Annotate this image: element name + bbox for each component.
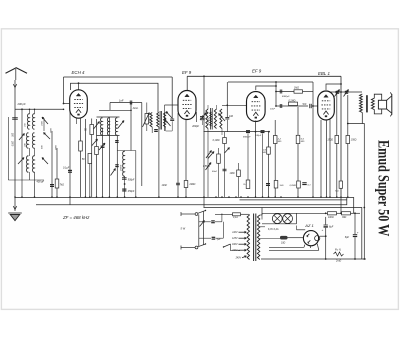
wire EF9-1 center xyxy=(185,120,187,198)
wire x102.5 with cap xyxy=(102,128,104,197)
filament lines from transformer xyxy=(269,246,304,248)
svg-text:EF 9: EF 9 xyxy=(252,69,262,74)
wire speaker top xyxy=(374,94,381,100)
heater return line xyxy=(204,208,362,260)
padder resistor xyxy=(145,114,149,125)
capacitor TA a xyxy=(199,221,211,223)
wire anode rail drop x204 xyxy=(203,76,205,207)
svg-text:MΩ: MΩ xyxy=(278,141,282,143)
svg-text:200 pF: 200 pF xyxy=(17,102,26,106)
resistor 200 xyxy=(184,181,188,188)
feedback cap arrow a xyxy=(336,91,339,92)
svg-text:8µF: 8µF xyxy=(345,236,350,239)
svg-text:Emud Super 50 W: Emud Super 50 W xyxy=(374,140,391,236)
svg-text:MΩ: MΩ xyxy=(263,152,267,154)
capacitor dark on x268 xyxy=(266,183,270,184)
svg-text:0,1A: 0,1A xyxy=(233,216,238,219)
fuse 0.1A xyxy=(233,213,241,216)
anode rail left xyxy=(64,76,173,78)
dial lamp top wire xyxy=(262,212,297,214)
resistor on x96.5 xyxy=(95,147,99,155)
resistor 5k on x248 xyxy=(247,134,249,181)
svg-text:8µF: 8µF xyxy=(329,226,334,229)
svg-text:6,3V 0,2A: 6,3V 0,2A xyxy=(268,228,279,231)
screen box EF9-2 xyxy=(228,81,313,83)
chassis bus xyxy=(15,198,354,214)
svg-text:0,1µF: 0,1µF xyxy=(63,166,70,169)
wire IF1 winding b bottom xyxy=(158,127,160,197)
wire x276 screen drop xyxy=(275,82,277,92)
svg-text:6300pF: 6300pF xyxy=(282,96,290,98)
svg-text:EF 9: EF 9 xyxy=(182,70,192,75)
wire x276 down xyxy=(275,92,277,107)
svg-text:MΩ: MΩ xyxy=(335,191,339,193)
svg-text:5nF: 5nF xyxy=(303,104,308,106)
svg-text:200Ω: 200Ω xyxy=(189,183,196,186)
capacitor 6800pF xyxy=(246,130,250,131)
tube EF9 second xyxy=(247,92,266,122)
svg-text:110V: 110V xyxy=(232,232,238,234)
capacitor 400pF xyxy=(50,184,54,185)
wire vertical x164.5 xyxy=(164,112,166,131)
band switch arrow a xyxy=(206,151,212,159)
wire TA vertical b xyxy=(202,212,204,245)
switch arrow input xyxy=(19,134,25,141)
svg-text:1µF: 1µF xyxy=(217,239,221,241)
dial lamp 2 xyxy=(283,214,293,224)
power transformer secondary xyxy=(257,215,259,260)
capacitor 6300pF xyxy=(279,90,281,94)
output transformer secondary xyxy=(371,98,374,110)
IF transformer 1 core xyxy=(159,111,161,130)
svg-text:450pF: 450pF xyxy=(128,190,135,193)
wire input bottom joins xyxy=(8,179,44,181)
svg-text:0,2MΩ: 0,2MΩ xyxy=(289,101,296,103)
wire EF9-2 cathode down xyxy=(255,121,257,198)
capacitor 200pF EF9-1 xyxy=(201,117,205,119)
svg-text:200pF: 200pF xyxy=(191,125,199,128)
input coil L5 xyxy=(27,156,29,172)
svg-text:1500: 1500 xyxy=(42,120,44,126)
osc switch arrow a xyxy=(92,139,98,146)
trimmer arrow input 3 xyxy=(18,158,24,165)
resistor on B+ line xyxy=(339,181,342,188)
osc switch arrow b xyxy=(99,143,105,150)
screen line ECH4 to IF1 xyxy=(71,83,159,112)
wire osc verticals xyxy=(108,117,110,197)
resistor 1M AVC xyxy=(294,90,303,93)
svg-text:0,1MΩ: 0,1MΩ xyxy=(213,140,220,142)
coil 20000 xyxy=(210,112,212,126)
resistor heater b xyxy=(342,212,351,215)
svg-text:220V: 220V xyxy=(231,250,238,252)
bus junction dots xyxy=(14,196,16,198)
IF transformer 1 winding c xyxy=(164,113,166,128)
capacitor 0.1uF xyxy=(68,170,72,171)
capacitor 50pF xyxy=(170,118,174,120)
second bus xyxy=(36,198,347,205)
tube EF9 first xyxy=(178,91,196,120)
wire vertical x44 upper xyxy=(43,118,45,131)
wire x313 down xyxy=(312,106,314,197)
grid top cap wire ECH4 xyxy=(78,83,80,90)
voltage selector taps xyxy=(239,231,247,233)
switch arrow mid xyxy=(225,148,230,154)
speaker cone xyxy=(387,96,392,101)
ground symbol xyxy=(10,215,20,221)
trimmer arrow input 2 xyxy=(44,133,51,140)
oscillator coil row2 xyxy=(123,151,125,176)
wire osc grid line xyxy=(99,109,131,111)
switch TA lower xyxy=(198,244,206,247)
wire input vertical a xyxy=(29,148,31,156)
svg-text:Abst.: Abst. xyxy=(132,107,139,110)
oscillator coil bank 3 xyxy=(115,118,117,135)
svg-text:160V: 160V xyxy=(232,244,238,246)
wire osc row1 top xyxy=(97,116,120,118)
IF2 trimmer arrow b xyxy=(219,114,226,122)
svg-text:25000: 25000 xyxy=(120,164,122,172)
rail B drop to EF9-1 top xyxy=(186,76,188,90)
svg-text:240V: 240V xyxy=(235,257,242,260)
capacitor IF1 bottom xyxy=(154,129,158,130)
wire vertical x70 xyxy=(69,109,71,205)
wire EBL1 grid cap xyxy=(326,84,341,90)
grid cap wire EF9-2 xyxy=(256,86,276,90)
trimmer arrow input 4 xyxy=(42,158,48,165)
svg-text:10nF: 10nF xyxy=(270,109,276,111)
resistor 0.1M mid xyxy=(223,138,227,144)
bottom heater line xyxy=(261,258,366,260)
IF transformer 1 winding a xyxy=(150,113,152,128)
wire dots on antenna line xyxy=(29,109,31,111)
ground arrow xyxy=(13,206,17,210)
osc switch arrow row2 xyxy=(111,169,116,176)
wire B+ to heater node xyxy=(340,197,342,213)
trimmer arrow input 1 xyxy=(42,117,48,124)
wire x364 to bottom xyxy=(363,258,365,260)
feedback cap arrow b xyxy=(345,91,348,92)
capacitor 700pF xyxy=(261,130,265,131)
wire AZ1 output xyxy=(310,245,312,248)
electrolytic 8uF b xyxy=(354,213,356,234)
wire x321 down xyxy=(320,120,322,197)
resistor 50k bottom xyxy=(88,154,92,164)
svg-text:1MΩ: 1MΩ xyxy=(230,173,235,175)
switch TA upper xyxy=(198,211,206,214)
osc trimmer arrow a xyxy=(94,122,100,130)
IF transformer 2 winding b xyxy=(214,109,216,129)
svg-text:+: + xyxy=(357,231,359,235)
resistor 0.5M det xyxy=(297,107,299,135)
wire EF9-1 cathode xyxy=(177,113,179,197)
svg-text:100Ω: 100Ω xyxy=(328,217,334,219)
wire ECH4 x85.4 xyxy=(84,119,86,197)
osc trimmer arrow b xyxy=(118,121,124,129)
rectifier tube AZ1 xyxy=(303,231,318,246)
junction antenna node xyxy=(21,108,23,110)
anode rail right xyxy=(187,75,341,77)
wire screen corner x313 xyxy=(312,82,314,106)
wire x262.5 down xyxy=(262,134,264,198)
wire ECH4 cathode mid with box xyxy=(80,119,82,198)
wire AZ1 output right xyxy=(320,235,326,237)
svg-text:150Ω: 150Ω xyxy=(327,140,333,142)
svg-text:AZ 1: AZ 1 xyxy=(304,223,313,228)
wire speaker bottom xyxy=(374,109,381,114)
wire TA caps right xyxy=(215,221,222,223)
anode line EBL1 xyxy=(330,91,362,93)
svg-text:0,5MΩ: 0,5MΩ xyxy=(203,166,210,168)
svg-text:2000: 2000 xyxy=(11,140,13,147)
IF transformer 1 winding b xyxy=(157,113,159,128)
wire osc row2 right down xyxy=(135,151,137,198)
capacitor elco 0.1 xyxy=(302,182,306,184)
wire input left vertical xyxy=(7,117,9,180)
wire osc row2 left xyxy=(116,136,118,198)
svg-text:1kΩ: 1kΩ xyxy=(280,185,284,187)
svg-text:ECH 4: ECH 4 xyxy=(72,70,85,75)
terminal TA lower xyxy=(195,246,198,249)
tube ECH4 xyxy=(70,90,88,118)
tube EBL1 xyxy=(318,91,335,120)
svg-text:150Ω: 150Ω xyxy=(351,140,357,142)
wire osc row2 top xyxy=(117,150,136,152)
svg-text:500pF: 500pF xyxy=(128,179,135,181)
antenna coupling capacitor xyxy=(12,117,18,119)
wire osc row1 bottom xyxy=(97,135,120,137)
mains switch xyxy=(224,244,231,247)
capacitor 500pF xyxy=(122,177,127,179)
resistor 100 ohm heater a xyxy=(328,212,337,215)
resistor 1M mid xyxy=(237,170,241,177)
transformer primary top wire xyxy=(249,213,251,216)
HT secondary taps xyxy=(260,226,265,228)
antenna xyxy=(6,68,28,73)
capacitor IF2 left xyxy=(200,116,204,118)
wire output return down xyxy=(363,130,365,260)
wire EF9-2 bottom line xyxy=(204,131,270,133)
wire x348 resistor xyxy=(347,95,349,136)
svg-text:100pF: 100pF xyxy=(255,135,262,137)
svg-text:10nF: 10nF xyxy=(162,184,168,187)
svg-text:100: 100 xyxy=(229,115,234,118)
svg-text:2500: 2500 xyxy=(149,117,151,124)
capacitor 5nF xyxy=(309,104,311,108)
svg-text:Fu ½: Fu ½ xyxy=(335,248,342,252)
resistor 1k mid xyxy=(274,181,278,189)
IF transformer 2 winding a xyxy=(206,109,208,129)
wire transformer primary bottom xyxy=(348,113,363,124)
wire EBL1 cathode xyxy=(326,120,328,197)
dial lamp 1 xyxy=(272,214,282,224)
resistor 7k xyxy=(55,179,59,188)
wire EF9-1 grid xyxy=(165,104,179,106)
antenna lead arrow xyxy=(13,84,17,88)
output transformer primary xyxy=(360,94,363,113)
wire ECH4 cathode x76.5 xyxy=(76,118,78,124)
rail corner down at x172 xyxy=(171,77,173,119)
band switch arrow b xyxy=(206,163,212,171)
IF transformer 2 winding c xyxy=(220,109,222,129)
wire IF2 tops xyxy=(207,105,209,109)
IF transformer 2 core xyxy=(210,108,212,130)
wire x330 down xyxy=(329,120,331,198)
capacitor 50nF on x224.5 xyxy=(223,168,227,170)
wire AZ1 anode lower xyxy=(288,237,304,239)
capacitor dark on x117 xyxy=(115,164,118,165)
svg-text:2mΩ: 2mΩ xyxy=(335,260,341,263)
wire vertical x52 xyxy=(51,131,53,197)
resistor 0.5M lower xyxy=(268,132,270,147)
wire osc feed down xyxy=(130,103,132,151)
heater line to rectifier xyxy=(297,212,328,214)
output transformer core xyxy=(366,95,368,112)
svg-text:400 pF: 400 pF xyxy=(37,181,45,184)
wire antenna to input coils xyxy=(15,108,64,110)
potentiometer volume xyxy=(208,152,214,159)
speaker voice coil xyxy=(378,100,386,109)
svg-text:2,2MΩ: 2,2MΩ xyxy=(288,185,296,187)
svg-text:MΩ: MΩ xyxy=(301,141,305,143)
svg-text:+: + xyxy=(322,228,324,232)
wire AZ1 anode top left xyxy=(297,229,306,231)
svg-text:1MΩ: 1MΩ xyxy=(294,88,299,90)
AZ1 filament legs xyxy=(303,245,306,248)
bandfilter coil L4 xyxy=(33,133,35,148)
resistor 2.2M det xyxy=(274,120,276,136)
svg-text:7kΩ: 7kΩ xyxy=(60,184,65,187)
wire x336 resistor 150 xyxy=(336,92,338,136)
transformer secondary top wire xyxy=(260,214,262,216)
power transformer core xyxy=(253,214,255,262)
bus parallel line xyxy=(240,199,347,201)
svg-text:ZF = 468 kHz: ZF = 468 kHz xyxy=(62,215,90,220)
svg-text:6800pF: 6800pF xyxy=(243,137,251,139)
power transformer primary xyxy=(247,215,249,260)
svg-text:EBL 1: EBL 1 xyxy=(318,71,330,76)
capacitor 450pF xyxy=(122,189,126,190)
wire detector line xyxy=(276,105,308,107)
rail B corner down at x341 xyxy=(340,76,342,197)
wire TA vertical a xyxy=(198,215,200,247)
svg-text:1nF: 1nF xyxy=(119,99,124,103)
oscillator tuning line xyxy=(141,103,143,187)
input coil L6 xyxy=(33,156,35,172)
electrolytic 8uF a xyxy=(325,217,327,225)
wire IF1 winding a bottom xyxy=(151,127,153,133)
IF1 trimmer arrow a xyxy=(164,119,170,127)
svg-text:30Ω: 30Ω xyxy=(342,217,347,219)
wire osc cathode x96.5 xyxy=(96,119,98,197)
terminal TA upper xyxy=(195,213,198,216)
dial lamp bottom wire xyxy=(262,223,297,225)
wire vertical x63.5 grid feed xyxy=(63,77,65,104)
antenna coil L1 xyxy=(28,114,30,129)
wire IF2 to EF9-2 grid xyxy=(222,104,247,106)
antenna coil L2 xyxy=(33,114,35,129)
wire ECH4 grid left xyxy=(64,103,70,105)
IF2 trimmer arrow a xyxy=(200,113,207,121)
resistor 0.2M det xyxy=(289,102,298,105)
svg-text:50nF: 50nF xyxy=(212,171,218,173)
wire EF9-1 right xyxy=(195,112,197,122)
oscillator coil bank 1 xyxy=(101,118,103,135)
resistor 10 ohm dark xyxy=(280,236,288,240)
capacitor 10nF det xyxy=(279,104,281,108)
svg-text:125V: 125V xyxy=(232,238,238,240)
wire AVC top xyxy=(276,91,294,93)
svg-text:5 W: 5 W xyxy=(181,226,186,230)
capacitor TA b xyxy=(199,237,211,239)
oscillator coil bank 2 xyxy=(107,118,109,135)
capacitor 10nF EF9-1 xyxy=(176,182,180,184)
wire vertical x57 xyxy=(56,148,58,197)
bandfilter coil L3 xyxy=(27,133,29,148)
resistor 50k osc grid xyxy=(91,119,93,125)
IF1 trimmer arrow b xyxy=(166,112,172,119)
capacitor dark row1 bottom xyxy=(115,140,118,141)
ground lead xyxy=(14,197,16,211)
svg-text:10Ω: 10Ω xyxy=(281,243,286,245)
